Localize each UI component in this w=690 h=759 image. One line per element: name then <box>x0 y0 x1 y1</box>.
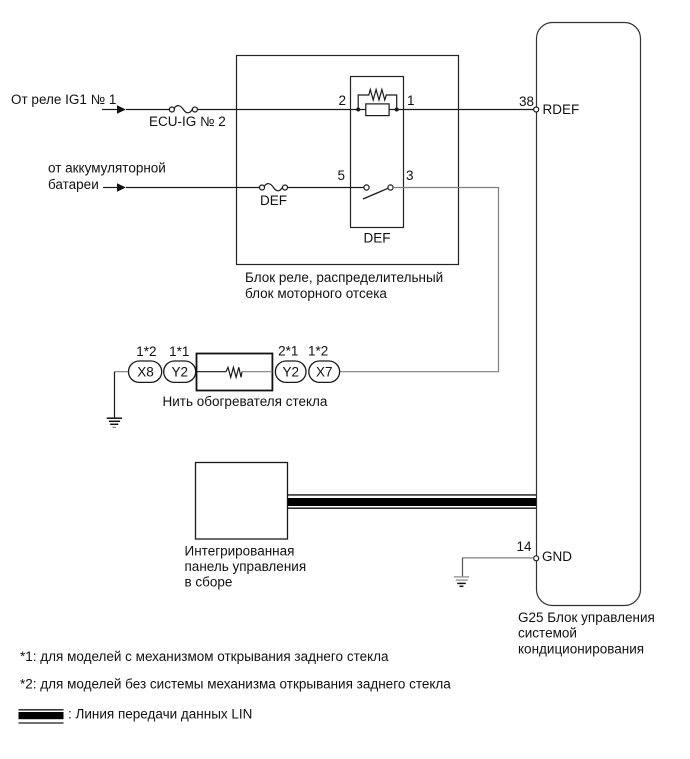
svg-text:ECU-IG № 2: ECU-IG № 2 <box>149 114 226 129</box>
svg-text:X8: X8 <box>137 365 154 380</box>
resistor R1 : relay coil parallel resistor zigzag <box>358 90 397 110</box>
wire W6 : inside grid box left <box>197 371 227 373</box>
wire W8 : GND pin to ground (gray) <box>462 558 534 577</box>
svg-text:панель управления: панель управления <box>185 559 307 574</box>
svg-text:Y2: Y2 <box>171 365 188 380</box>
svg-text:DEF: DEF <box>364 231 391 246</box>
fuse F1 ECU-IG № 2 <box>169 106 197 113</box>
svg-text:Y2: Y2 <box>282 365 299 380</box>
wire W5 : ground drop <box>114 372 116 419</box>
connector X7 <box>309 361 340 382</box>
svg-text:Блок реле, распределительный: Блок реле, распределительный <box>245 270 443 285</box>
wire W1a : source to fuse ECU-IG <box>102 105 170 113</box>
svg-text:блок моторного отсека: блок моторного отсека <box>245 286 387 301</box>
pin 38 terminal circle <box>534 107 539 112</box>
svg-text:кондиционирования: кондиционирования <box>518 642 644 657</box>
svg-text:G25 Блок управления: G25 Блок управления <box>518 610 655 625</box>
svg-text:2: 2 <box>338 93 346 108</box>
integration panel box <box>196 463 288 540</box>
svg-text:DEF: DEF <box>260 193 287 208</box>
svg-text:X7: X7 <box>316 365 333 380</box>
svg-text:в сборе: в сборе <box>185 575 233 590</box>
wire W2a : battery to fuse DEF <box>103 183 260 191</box>
wire W1c : relay pin 1 to connector pin 38 <box>389 109 534 111</box>
connector Y2 left <box>164 361 196 382</box>
relay K1 DEF inner box <box>351 77 404 228</box>
svg-text:: Линия передачи данных LIN: : Линия передачи данных LIN <box>68 707 252 722</box>
svg-text:5: 5 <box>337 168 345 183</box>
resistor R2 : defogger element zigzag <box>226 367 242 377</box>
svg-text:1: 1 <box>407 93 415 108</box>
svg-text:14: 14 <box>516 539 532 554</box>
junction dot left of coil <box>356 108 360 112</box>
svg-text:системой: системой <box>518 626 577 641</box>
relay block caption <box>245 270 443 301</box>
block G25 : A/C control unit outline <box>537 23 641 606</box>
svg-text:От реле IG1 № 1: От реле IG1 № 1 <box>11 92 116 107</box>
svg-text:3: 3 <box>406 168 414 183</box>
svg-text:*2: для моделей без системы ме: *2: для моделей без системы механизма от… <box>20 677 451 692</box>
svg-text:RDEF: RDEF <box>543 102 580 117</box>
svg-text:батареи: батареи <box>48 177 99 192</box>
G25 caption <box>518 610 655 657</box>
svg-text:GND: GND <box>542 549 572 564</box>
relay box : engine room relay block outer box <box>237 56 459 265</box>
LIN bus line <box>288 495 537 508</box>
fuse F2 DEF <box>260 184 288 191</box>
pin 14 terminal circle <box>534 556 539 561</box>
ground G2 <box>454 577 469 586</box>
switch S1 : relay contact <box>363 185 393 199</box>
wire W1b : fuse to relay coil pin 2 <box>197 109 365 111</box>
junction dot right of coil <box>395 108 399 112</box>
svg-text:2*1: 2*1 <box>278 344 298 359</box>
wire W4 : ground stub to X8 (gray) <box>115 371 129 373</box>
svg-text:Интегрированная: Интегрированная <box>185 544 295 559</box>
wire W2b : fuse DEF to switch pin 5 <box>288 187 364 189</box>
relay coil box element <box>366 104 389 116</box>
integration panel caption <box>185 544 307 590</box>
defogger grid box <box>197 354 273 391</box>
connector X8 <box>129 361 162 382</box>
svg-text:Нить обогревателя стекла: Нить обогревателя стекла <box>163 394 328 409</box>
svg-text:от аккумуляторной: от аккумуляторной <box>48 161 166 176</box>
connector Y2 right <box>275 361 306 382</box>
svg-text:1*2: 1*2 <box>136 344 156 359</box>
wire W7 : inside grid box right (gray) <box>242 371 272 373</box>
wire W3 : switch pin 3 to defogger (gray) <box>340 188 500 372</box>
ground G1 <box>107 418 122 427</box>
LIN legend swatch <box>19 710 64 723</box>
svg-text:1*1: 1*1 <box>169 344 189 359</box>
svg-text:38: 38 <box>519 94 534 109</box>
svg-text:1*2: 1*2 <box>308 344 328 359</box>
node B : battery source label <box>48 161 166 193</box>
svg-text:*1: для моделей с механизмом о: *1: для моделей с механизмом открывания … <box>20 649 389 664</box>
